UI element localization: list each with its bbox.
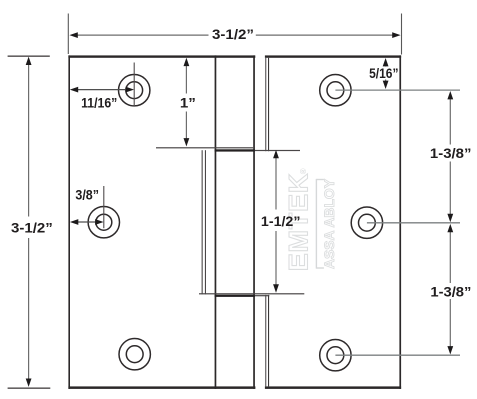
svg-text:1”: 1” xyxy=(180,94,196,110)
middle knuckle bottom extension line xyxy=(199,293,304,294)
hole bottom-right xyxy=(320,340,351,371)
dim 1-3/8 upper: up arrowhead xyxy=(447,91,453,99)
top knuckle bottom extension line xyxy=(156,147,254,148)
left leaf hem strip line outer (middle section) xyxy=(202,150,203,294)
dim 1-1/2: dimension line xyxy=(275,154,277,289)
dim 1-3/8 lower: down arrowhead xyxy=(447,346,453,354)
leader line from hole top-right xyxy=(335,89,460,91)
right plate hem line outer (top section) xyxy=(265,58,266,151)
dim 1: up arrowhead xyxy=(184,58,190,66)
right plate hem line inner (top section) xyxy=(268,58,269,151)
svg-text:1-1/2”: 1-1/2” xyxy=(261,213,301,229)
svg-text:5/16”: 5/16” xyxy=(369,65,398,81)
svg-text:3-1/2”: 3-1/2” xyxy=(11,220,53,236)
svg-text:3/8”: 3/8” xyxy=(75,186,99,202)
dim 1-1/2: up arrowhead xyxy=(273,150,279,158)
right plate hem line inner (bottom section) xyxy=(268,295,269,387)
watermark ASSA ABLOY frame bracket xyxy=(316,179,324,269)
dim 3/8: right arrowhead xyxy=(95,219,103,225)
dim 1-3/8 upper: down arrowhead xyxy=(447,214,453,222)
left leaf plate left edge xyxy=(68,55,70,389)
dim 5/16: down arrowhead xyxy=(383,81,389,89)
hole top-left crosshair xyxy=(133,63,135,107)
dim 5/16: dimension line xyxy=(385,63,387,85)
leader line from hole mid-right xyxy=(367,222,460,224)
right plate right edge xyxy=(399,55,401,389)
middle knuckle bottom edge (thick) xyxy=(215,295,255,297)
leaf top edge (right plate) xyxy=(265,55,401,57)
dim 3-1/2 top: left extension line xyxy=(67,14,69,55)
hole top-right xyxy=(320,75,351,106)
dim 11/16: left arrowhead xyxy=(70,87,78,93)
leaf bottom edge (right plate) xyxy=(265,386,401,389)
dim 1-1/2: down arrowhead xyxy=(273,284,279,292)
dim 11/16: right arrowhead xyxy=(126,87,134,93)
svg-text:11/16”: 11/16” xyxy=(81,94,117,110)
leaf top edge (left of barrel gap) xyxy=(68,55,255,57)
dim 1-3/8 lower: dimension line xyxy=(449,228,451,351)
hole top-left xyxy=(119,75,150,106)
right plate hem line outer (bottom section) xyxy=(265,295,266,387)
right plate notch bottom edge xyxy=(255,295,269,296)
dim 3-1/2 top: right extension line xyxy=(401,14,403,55)
leaf bottom edge (left of barrel gap) xyxy=(68,386,255,389)
svg-text:ASSA ABLOY: ASSA ABLOY xyxy=(322,179,337,269)
svg-text:3-1/2”: 3-1/2” xyxy=(212,26,254,42)
dim 1-3/8 upper: dimension line xyxy=(449,95,451,219)
svg-text:1-3/8”: 1-3/8” xyxy=(430,283,471,299)
dim 3-1/2 top: right arrowhead xyxy=(392,32,400,38)
right plate notch top edge + extension xyxy=(255,150,300,151)
dim 3-1/2 left: dimension line xyxy=(28,63,30,380)
dim 3-1/2 left: bottom tick xyxy=(8,388,51,389)
dim 3/8: dimension line xyxy=(73,221,101,223)
svg-text:®: ® xyxy=(299,168,308,174)
hole bottom-left xyxy=(119,339,150,370)
barrel right edge xyxy=(253,55,255,389)
hole mid-left xyxy=(88,207,119,238)
dim 3-1/2 top: left arrowhead xyxy=(69,32,77,38)
dim 1: down arrowhead xyxy=(184,138,190,146)
dim 3/8: left arrowhead xyxy=(70,219,78,225)
dim 3-1/2 left: up arrowhead xyxy=(26,57,32,65)
leader line from hole bottom-right xyxy=(335,354,460,356)
dim 1-3/8 lower: up arrowhead xyxy=(447,224,453,232)
left leaf hem strip line inner (middle section) xyxy=(205,150,206,294)
svg-text:1-3/8”: 1-3/8” xyxy=(430,145,472,161)
dim 3-1/2 top: dimension line xyxy=(76,34,394,36)
dim 3-1/2 left: down arrowhead xyxy=(26,379,32,387)
dim 11/16: dimension line xyxy=(73,89,131,91)
dim 5/16: up arrowhead xyxy=(383,58,389,66)
barrel left edge xyxy=(215,55,217,389)
dim 1: dimension line xyxy=(185,61,187,143)
dim 3-1/2 left: top tick xyxy=(8,56,50,57)
top knuckle bottom edge (thick) xyxy=(215,149,255,151)
hole mid-right xyxy=(351,207,382,238)
watermark EMTEK logotype (rotated) xyxy=(284,168,314,271)
hole mid-left crosshair xyxy=(103,186,105,228)
